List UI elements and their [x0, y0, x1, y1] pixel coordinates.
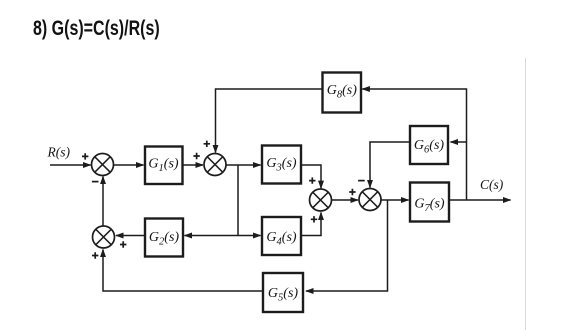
- block G6: [410, 126, 448, 164]
- wire S5 to block G7: [381, 199, 409, 201]
- block G3: [262, 146, 301, 184]
- wire S1 to block G1: [114, 164, 144, 166]
- scan page edge: [525, 58, 527, 330]
- wire G2 to summing junction S3: [116, 235, 145, 237]
- summing junction S1: [92, 154, 114, 176]
- wire G6 output into S5 top: [370, 142, 410, 188]
- wire branch right into block G4: [238, 235, 261, 237]
- sign + at S4 bottom input: [311, 216, 317, 222]
- summing junction S3: [93, 226, 115, 248]
- block G2: [145, 219, 183, 257]
- svg-text:G4(s): G4(s): [266, 230, 296, 248]
- wire G5 output to S3 bottom: [103, 250, 263, 292]
- wire S3 up into S1 bottom: [102, 177, 104, 227]
- svg-text:R(s): R(s): [47, 145, 71, 160]
- sign + at S3 bottom input: [92, 252, 98, 258]
- sign + at S4 top input: [309, 177, 315, 183]
- wire tap into block G6: [451, 141, 467, 143]
- sign - at S5 top input: [358, 180, 365, 182]
- sign + at S3 right input: [120, 241, 126, 247]
- summing junction S2: [204, 154, 226, 176]
- summing junction S4: [310, 189, 332, 211]
- svg-text:G5(s): G5(s): [268, 286, 298, 304]
- summing junction S5: [359, 189, 381, 211]
- svg-text:G7(s): G7(s): [414, 197, 444, 215]
- wire S2 to block G3: [226, 164, 261, 166]
- svg-text:G1(s): G1(s): [148, 157, 178, 175]
- sign - at S1 bottom input: [92, 181, 99, 183]
- block G4: [262, 217, 301, 255]
- wire R(s) input to summing junction S1: [50, 164, 91, 166]
- wire G7 to C(s) output: [449, 199, 511, 201]
- wire output tap up the right side: [362, 89, 466, 200]
- title heading: [33, 17, 160, 41]
- svg-text:G3(s): G3(s): [266, 156, 296, 174]
- wire G3 output into summing junction S4 top: [301, 165, 321, 188]
- sign + at S1 left input: [82, 153, 88, 159]
- wire junction branch down from S2 output: [237, 165, 239, 236]
- wire branch left into block G2: [185, 235, 239, 237]
- svg-text:C(s): C(s): [480, 177, 504, 192]
- wire G4 output into summing junction S4 bottom: [301, 213, 321, 236]
- wire G1 to summing junction S2: [183, 164, 204, 166]
- wire S4 to summing junction S5: [332, 199, 359, 201]
- sign + at S5 left input: [349, 189, 355, 195]
- block G7: [410, 183, 449, 222]
- sign + at S2 top input: [204, 141, 210, 147]
- svg-text:G8(s): G8(s): [327, 83, 357, 101]
- svg-text:G2(s): G2(s): [149, 230, 179, 248]
- wire G8 output into S2 top: [216, 89, 323, 153]
- sign + at S2 left input: [193, 153, 199, 159]
- wire feedback tap down from S5 output to block G5: [306, 200, 388, 291]
- block G8: [323, 73, 362, 113]
- block G1: [145, 147, 183, 185]
- block G5: [263, 273, 303, 312]
- svg-text:G6(s): G6(s): [414, 138, 444, 156]
